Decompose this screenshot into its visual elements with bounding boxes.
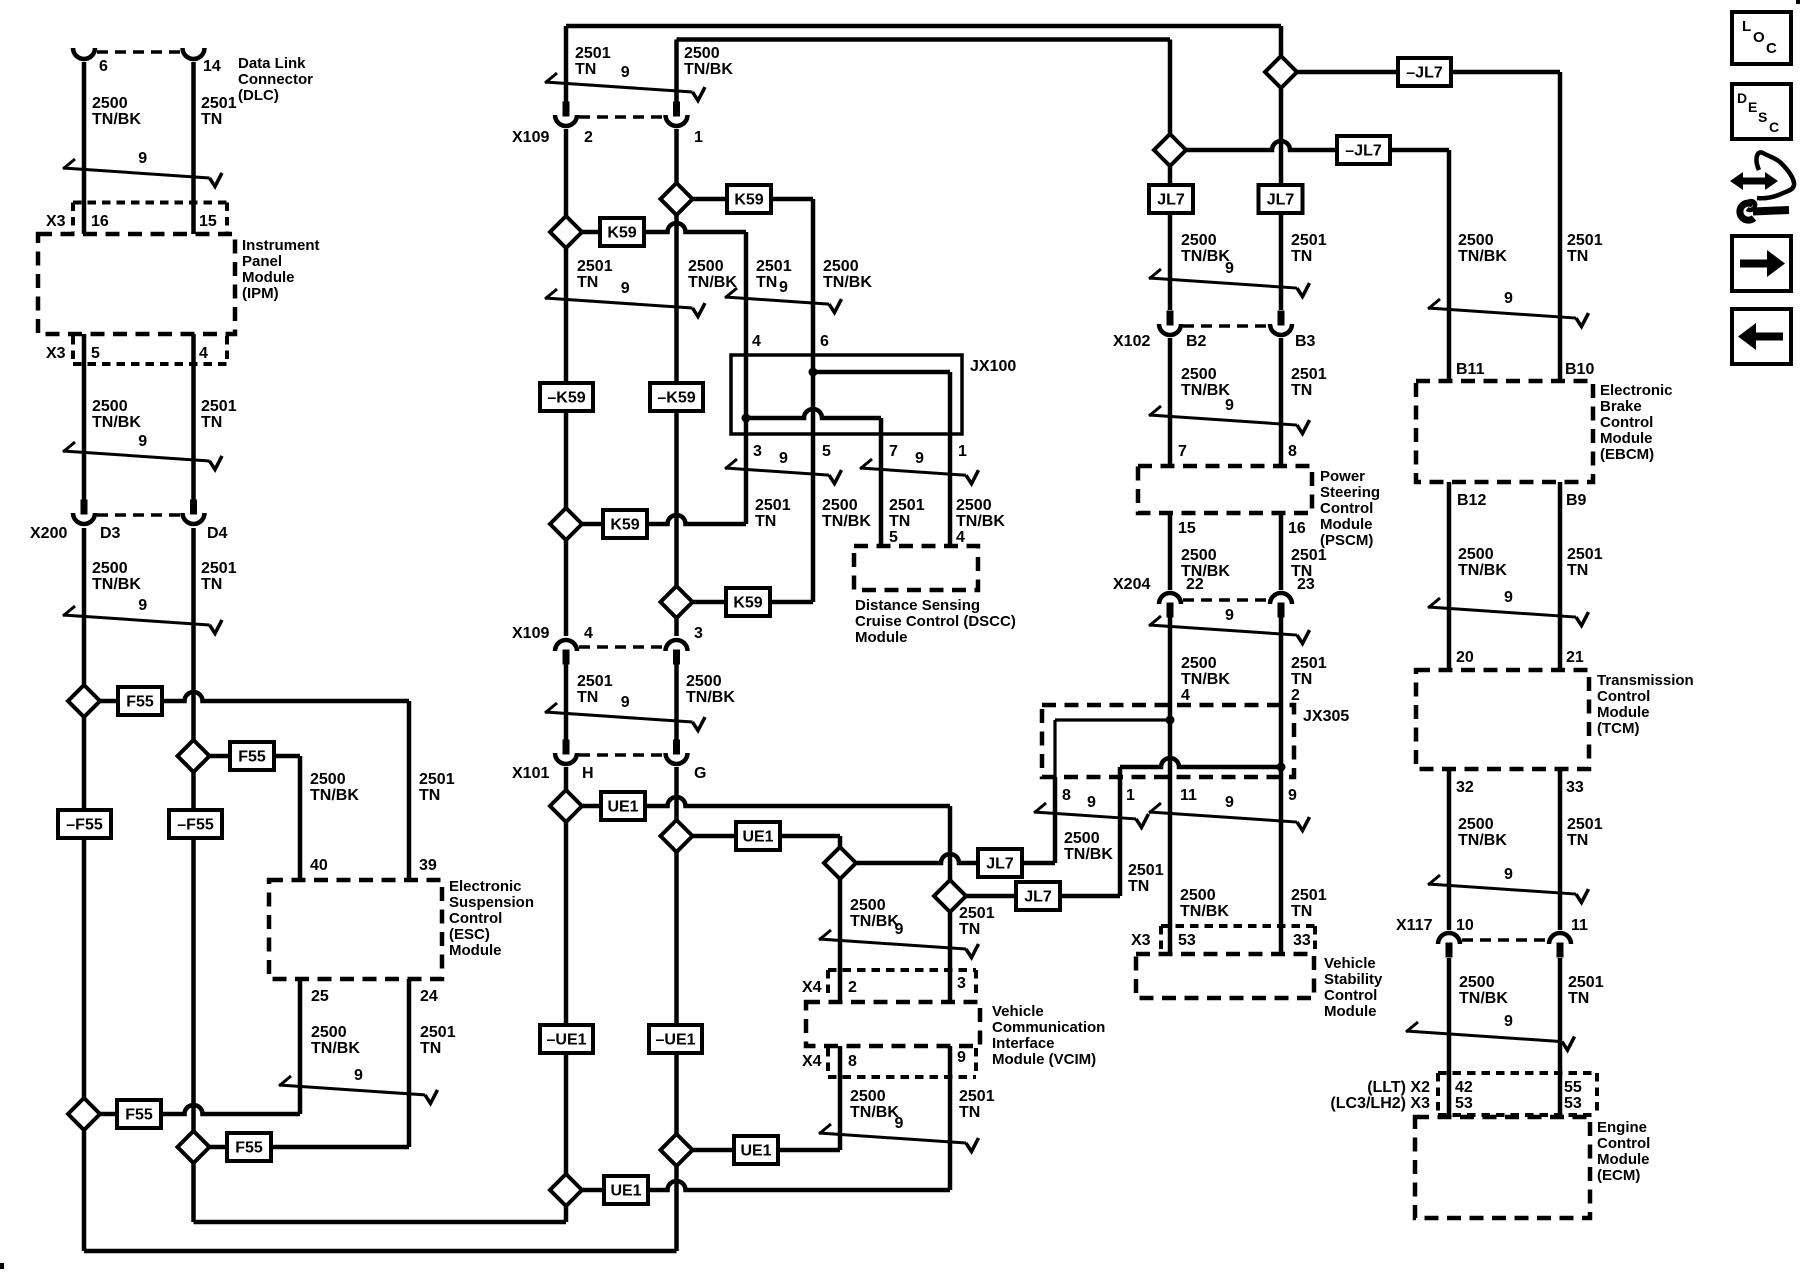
wire label 2501 TN JX305 9 [1291,887,1327,920]
wire label 2500 TN/BK JL7 [1064,830,1113,863]
svg-text:JL7: JL7 [1157,192,1185,209]
pin label X200 D4 [207,525,228,542]
svg-text:TN/BK: TN/BK [823,274,872,291]
svg-text:TN/BK: TN/BK [1064,846,1113,863]
svg-text:9: 9 [621,280,630,297]
svg-text:Transmission: Transmission [1597,672,1694,689]
icon wiring harness routing [1730,152,1794,220]
wire label 2501 TN below X200 [201,560,237,593]
svg-text:9: 9 [1225,794,1234,811]
pin label VCIM 3 [957,975,966,992]
wire 2500 TN/BK X109-3 to X101-G [674,664,679,745]
svg-text:E: E [1748,99,1757,115]
svg-text:2501: 2501 [201,398,237,415]
pin label TCM 21 [1566,649,1584,666]
svg-text:2501: 2501 [1567,546,1603,563]
icon back arrow button [1732,309,1791,364]
module VCIM box [806,1002,980,1046]
svg-text:X4: X4 [802,979,822,996]
connector label X3 top [46,213,66,230]
svg-text:TN: TN [959,921,980,938]
pin label PSCM 7 [1178,443,1187,460]
wire label 2501 TN ESC 24 [420,1024,456,1057]
svg-text:JL7: JL7 [986,856,1014,873]
svg-text:4: 4 [752,333,761,350]
connector X2 X3 strip ECM [1438,1073,1597,1115]
splice F55 lower on 2500 wire [68,1098,100,1130]
svg-text:K59: K59 [733,595,762,612]
svg-text:9: 9 [1225,607,1234,624]
svg-text:X117: X117 [1396,917,1433,934]
inline tag -JL7 second [1337,136,1390,164]
svg-text:TN: TN [1291,248,1312,265]
pin label VSCM 53 [1178,932,1196,949]
pin label VCIM 8 [848,1053,857,1070]
wire JX100 pin4 to pin3 through [744,355,749,434]
pin label X109 3 [694,625,703,642]
connector label X3 bottom [46,345,66,362]
component label TCM [1597,672,1694,737]
component label DLC [238,55,313,104]
component label PSCM [1320,468,1380,549]
connector label X109 top [512,129,549,146]
svg-text:Module: Module [1600,430,1653,447]
svg-text:TN/BK: TN/BK [311,1040,360,1057]
wire 2500 TN/BK X204 22 to JX305 pin 4 [1168,617,1173,705]
pin label PSCM 8 [1288,443,1297,460]
svg-text:2501: 2501 [1567,816,1603,833]
pin label JX100 3 [753,443,762,460]
wire label 2500 TN/BK X102 [1181,366,1230,399]
twisted pair symbol X109 top [545,64,705,101]
svg-text:TN: TN [1568,990,1589,1007]
svg-text:2500: 2500 [686,673,722,690]
pin label ESC 39 [419,857,437,874]
pin label ESC 40 [310,857,328,874]
svg-text:B3: B3 [1295,333,1316,350]
wire label 2500 TN/BK ESC 25 [311,1024,360,1057]
svg-text:9: 9 [915,450,924,467]
svg-text:–K59: –K59 [547,390,585,407]
wire 2500 TN/BK X109-1 down to X109-3 [674,129,679,636]
svg-text:2500: 2500 [1458,546,1494,563]
twisted pair symbol TCM to X117 [1428,866,1589,903]
wire label 2501 TN TCM 33 [1567,816,1603,849]
net tag JL7 row1 [978,849,1022,877]
svg-text:2501: 2501 [1291,366,1327,383]
svg-text:TN: TN [1291,671,1312,688]
wire splice to -JL7 to EBCM B11 [1170,141,1449,150]
svg-text:2501: 2501 [959,1088,995,1105]
pin label ECM 55 [1564,1079,1582,1096]
svg-text:Control: Control [1597,688,1650,705]
wire 2501 TN X102 B3 to PSCM pin 8 [1279,338,1284,466]
connector X204 dashed link [1183,598,1268,602]
junction JX305 pin 2 tap [1277,763,1286,772]
svg-text:O: O [1753,29,1765,46]
pin label EBCM B11 [1456,361,1485,378]
svg-text:–F55: –F55 [66,817,103,834]
net tag F55 row4 [227,1133,271,1161]
svg-text:21: 21 [1566,649,1584,666]
net tag F55 row3 [117,1100,161,1128]
svg-text:TN: TN [889,513,910,530]
junction JX305 pin 4 tap [1166,716,1175,725]
wire 2501 TN JX100 pin 3 riser [744,434,749,524]
connector label ECM X2 [1367,1079,1430,1096]
wire JX305 pin 1 internal drop [1118,767,1123,777]
wire 2500 TN/BK JX305 pin 11 to VSCM 53 [1168,777,1173,954]
wire 2500 TN/BK X101-G down to bottom bus [674,767,679,1251]
splice F55 on 2500 wire [68,685,100,717]
wire 2500 TN/BK JL7 to X102 B2 [1168,150,1173,310]
svg-text:Panel: Panel [242,253,282,270]
pin label EBCM B12 [1457,492,1486,509]
wire 2500 TN/BK IPM pin 5 to X200 [82,334,87,501]
connector X109 pin 1 [666,102,688,127]
svg-text:TN/BK: TN/BK [92,576,141,593]
svg-text:–F55: –F55 [177,817,214,834]
junction JX100 pin 6 tap [809,368,818,377]
pin label VSCM 33 [1293,932,1311,949]
wire bus bottom from 2501 splice [194,1220,567,1225]
connector X204 23 [1270,593,1292,618]
svg-text:2500: 2500 [1181,655,1217,672]
wire 2500 TN/BK X117 10 to ECM 42/53 [1447,958,1452,1117]
svg-text:8: 8 [1062,787,1071,804]
svg-text:2500: 2500 [684,45,720,62]
splice F55 lower on 2501 wire [178,1131,210,1163]
svg-text:9: 9 [1504,866,1513,883]
wire 2500 TN/BK X200 D3 down to splice [82,528,87,1251]
svg-text:9: 9 [779,279,788,296]
svg-text:5: 5 [889,529,898,546]
svg-text:(LC3/LH2) X3: (LC3/LH2) X3 [1330,1095,1430,1112]
svg-text:24: 24 [420,988,438,1005]
splice UE1 on 2500 wire [661,820,693,852]
pin label PSCM 15 [1178,520,1196,537]
wire splice to -JL7 to EBCM B10 [1281,70,1560,75]
net tag F55 row2 [230,742,274,770]
wire 2501 TN JL7 to X102 B3 [1279,72,1284,310]
svg-text:7: 7 [889,443,898,460]
net tag UE1 row2 [736,822,780,850]
svg-text:5: 5 [822,443,831,460]
wire label 2500 TN/BK JX100-6 [823,258,872,291]
svg-text:1: 1 [694,129,703,146]
svg-text:2: 2 [1291,687,1300,704]
svg-text:TN/BK: TN/BK [688,274,737,291]
svg-text:6: 6 [99,58,108,75]
svg-text:D3: D3 [100,525,121,542]
svg-text:UE1: UE1 [740,1143,771,1160]
net tag F55 row1 [118,687,162,715]
svg-text:2501: 2501 [889,497,925,514]
svg-text:11: 11 [1180,787,1197,804]
svg-text:B10: B10 [1565,361,1594,378]
pin label JX305 11 [1180,787,1197,804]
wire 2500 TN/BK to ESC pin 40 drop [298,756,303,880]
svg-text:Data Link: Data Link [238,55,306,72]
svg-text:2500: 2500 [850,1088,886,1105]
svg-text:TN/BK: TN/BK [686,689,735,706]
connector DLC dashed link [97,50,181,54]
svg-text:4: 4 [956,529,965,546]
svg-text:2501: 2501 [959,905,995,922]
svg-text:2501: 2501 [1568,974,1604,991]
wire 2501 TN JX100 pin7 to DSCC pin 5 [879,434,884,546]
component label JX305 [1303,708,1349,725]
pin label X117 11 [1571,917,1588,934]
inline tag -F55 on 2501 [169,810,222,838]
svg-text:2501: 2501 [1291,547,1327,564]
wire label 2501 TN VCIM 3 [959,905,995,938]
wire label 2501 TN top right [1291,232,1327,265]
wire label 2501 TN X102 [1291,366,1327,399]
svg-text:Module: Module [449,942,502,959]
svg-text:TN/BK: TN/BK [1181,671,1230,688]
wire label 2500 TN/BK PSCM 15 [1181,547,1230,580]
svg-text:10: 10 [1456,917,1474,934]
wire 2500 TN/BK top bus [677,37,1171,42]
wire 2500 TN/BK JX305 pin 8 riser [1053,777,1058,863]
wire label 2500 TN/BK X204 [1181,655,1230,704]
svg-text:2500: 2500 [1180,887,1216,904]
pin label X109 1 [694,129,703,146]
svg-text:K59: K59 [610,517,639,534]
splice -JL7 on 2501 top [1265,56,1297,88]
net tag JL7 on B2 wire [1149,185,1193,213]
svg-text:(LLT) X2: (LLT) X2 [1367,1079,1430,1096]
svg-text:2500: 2500 [1459,974,1495,991]
svg-text:Instrument: Instrument [242,237,320,254]
wire JX305 pin 8 internal drop [1053,720,1056,777]
svg-text:2500: 2500 [1181,547,1217,564]
svg-text:2500: 2500 [92,95,128,112]
pin label X109 2 [584,129,593,146]
wire 2500 TN/BK VCIM pin 8 drop [838,1046,843,1150]
wire 2500 TN/BK JX100 pin1 to DSCC pin 4 [948,434,953,546]
pin label ESC 24 [420,988,438,1005]
svg-text:(IPM): (IPM) [242,285,279,302]
wire label 2501 TN JL7 [1128,862,1164,895]
svg-text:TN/BK: TN/BK [684,61,733,78]
svg-text:TN/BK: TN/BK [822,513,871,530]
svg-text:TN: TN [1291,382,1312,399]
wire splice UE1 to VCIM pin 8 [677,1148,841,1153]
svg-text:UE1: UE1 [607,799,638,816]
connector label X102 [1113,333,1150,350]
svg-text:–K59: –K59 [657,390,695,407]
svg-text:Control: Control [1600,414,1653,431]
svg-text:15: 15 [1178,520,1196,537]
wire label 2500 TN/BK below X200 [92,560,141,593]
wire 2501 TN PSCM pin 16 to X204 23 [1279,513,1284,590]
svg-text:JX305: JX305 [1303,708,1349,725]
svg-text:F55: F55 [238,749,266,766]
svg-text:X3: X3 [1131,932,1151,949]
svg-text:25: 25 [311,988,329,1005]
svg-text:TN/BK: TN/BK [956,513,1005,530]
pin label IPM 16 [91,213,109,230]
pin label X200 D3 [100,525,121,542]
wire label 2500 TN/BK above X101 [686,673,735,706]
svg-text:TN: TN [577,689,598,706]
svg-text:X3: X3 [46,213,66,230]
svg-text:2: 2 [848,979,857,996]
wire VCIM pin 3 below splice [948,913,953,1002]
connector X109 pin 4 [555,640,577,665]
svg-text:TN/BK: TN/BK [1458,832,1507,849]
wire label 2501 TN ESC 39 [419,771,455,804]
wire 2500 TN/BK X109 pin 1 top riser [674,40,679,103]
wire 2501 TN X109-2 down to X109-4 [564,129,569,636]
splice -JL7 on 2500 top [1154,134,1186,166]
svg-text:9: 9 [138,597,147,614]
svg-text:6: 6 [820,333,829,350]
twisted pair symbol above VCIM [819,921,979,957]
svg-text:2500: 2500 [822,497,858,514]
svg-text:Cruise Control (DSCC): Cruise Control (DSCC) [855,613,1016,630]
svg-text:TN: TN [201,414,222,431]
svg-text:8: 8 [848,1053,857,1070]
svg-text:2500: 2500 [956,497,992,514]
inline tag -JL7 top [1398,58,1451,86]
svg-text:42: 42 [1455,1079,1473,1096]
wire splice UE1 to VCIM pin 9 [566,1181,950,1190]
svg-text:F55: F55 [235,1140,263,1157]
svg-text:Module (VCIM): Module (VCIM) [992,1051,1096,1068]
wire 2500 TN/BK JX100 pin 5 riser [811,434,816,602]
svg-text:Module: Module [242,269,295,286]
svg-text:9: 9 [354,1067,363,1084]
pin label ESC 25 [311,988,329,1005]
svg-text:Control: Control [1597,1135,1650,1152]
svg-text:2500: 2500 [92,398,128,415]
wire JX305 pin2 through to pin 9 [1279,705,1284,777]
svg-text:2501: 2501 [577,673,613,690]
svg-text:TN: TN [756,274,777,291]
wire 2500 TN/BK ESC pin 25 drop [298,979,303,1114]
wire label 2501 TN mid1 [577,258,613,291]
svg-text:9: 9 [957,1049,966,1066]
svg-text:UE1: UE1 [742,829,773,846]
svg-text:–JL7: –JL7 [1406,65,1443,82]
wire JX100 pin 1 drop [948,372,953,434]
svg-text:TN: TN [419,787,440,804]
svg-text:9: 9 [621,64,630,81]
svg-text:TN/BK: TN/BK [1181,248,1230,265]
svg-text:B9: B9 [1566,492,1587,509]
wire label 2500 TN/BK X117 [1459,974,1508,1007]
wire 2501 TN EBCM B9 to TCM 21 [1558,482,1563,670]
wire 2501 TN X204 23 to JX305 pin 2 [1279,617,1284,705]
module ESC box [269,880,442,979]
component label IPM [242,237,320,302]
wire label 2500 TN/BK below DLC [92,95,141,128]
icon DESC button [1732,84,1791,139]
inline tag -F55 on 2500 [58,810,111,838]
svg-text:G: G [694,765,706,782]
connector X200 D3 [73,500,95,525]
pin label X109 4 [584,625,593,642]
wire 2500 TN/BK top bus drop right [1168,40,1173,151]
svg-text:2501: 2501 [756,258,792,275]
net tag UE1 row3 [734,1136,778,1164]
svg-text:9: 9 [1504,589,1513,606]
svg-text:F55: F55 [125,1107,153,1124]
splice JL7 on VCIM 3 wire [934,880,966,912]
svg-text:B11: B11 [1456,361,1485,378]
net tag UE1 row4 [604,1176,648,1204]
svg-text:2500: 2500 [311,1024,347,1041]
svg-text:2501: 2501 [1128,862,1164,879]
twisted pair symbol below IPM [63,433,222,469]
svg-text:23: 23 [1297,576,1315,593]
svg-text:S: S [1758,109,1767,125]
svg-text:TN: TN [1567,248,1588,265]
twisted pair symbol DLC [63,150,222,186]
svg-text:20: 20 [1456,649,1474,666]
wire label 2501 TN DSCC 5 [889,497,925,546]
wire 2501 TN X101-H down to bottom bus [564,767,569,1222]
wire label 2500 TN/BK TCM 32 [1458,816,1507,849]
component label JX100 [970,358,1016,375]
component label ECM [1597,1119,1650,1184]
svg-text:2501: 2501 [577,258,613,275]
wire label 2500 TN/BK JX305 11 [1180,887,1229,920]
wire 2500 TN/BK JX100 pin 6 drop [811,199,816,355]
connector X117 11 [1549,933,1571,958]
svg-text:2: 2 [584,129,593,146]
svg-text:9: 9 [1504,290,1513,307]
module PSCM box [1138,466,1312,513]
module VSCM box [1136,954,1314,998]
wire 2501 TN X200 D4 down to splice [191,528,196,1222]
wire label 2501 TN X204 [1291,655,1327,704]
splice JL7 on VCIM 2 wire [824,847,856,879]
pin label X117 10 [1456,917,1474,934]
svg-text:X4: X4 [802,1053,822,1070]
svg-text:Module: Module [1597,704,1650,721]
wire label 2500 TN/BK VCIM 8 [850,1088,899,1121]
wire label 2501 TN JX100-4 [756,258,792,291]
wire splice UE1 to VCIM pin 2 [677,834,841,839]
svg-text:X204: X204 [1113,576,1150,593]
connector label X4 bottom [802,1053,822,1070]
svg-text:JL7: JL7 [1024,889,1052,906]
connector X3 strip IPM top [73,203,227,233]
svg-text:D: D [1737,90,1747,106]
icon forward arrow button [1732,236,1791,291]
pin label X204 23 [1297,576,1315,593]
wire JX100 pin6 to pin5 through [811,355,816,434]
wire 2500 TN/BK drop to EBCM B11 [1447,150,1452,381]
wire F55 to ESC pin 40 [194,754,301,759]
svg-text:Control: Control [449,910,502,927]
svg-text:55: 55 [1564,1079,1582,1096]
wire bus bottom from 2500 splice [84,1249,677,1254]
svg-text:(ESC): (ESC) [449,926,490,943]
svg-text:Module: Module [1324,1003,1377,1020]
svg-text:3: 3 [753,443,762,460]
svg-text:2500: 2500 [850,897,886,914]
splice K59 on 2500 wire [661,183,693,215]
wire 2501 TN X117 11 to ECM 55/53 [1558,958,1563,1117]
svg-text:Module: Module [1597,1151,1650,1168]
svg-text:53: 53 [1564,1095,1582,1112]
wire label 2500 TN/BK JX100-5 [822,497,871,530]
